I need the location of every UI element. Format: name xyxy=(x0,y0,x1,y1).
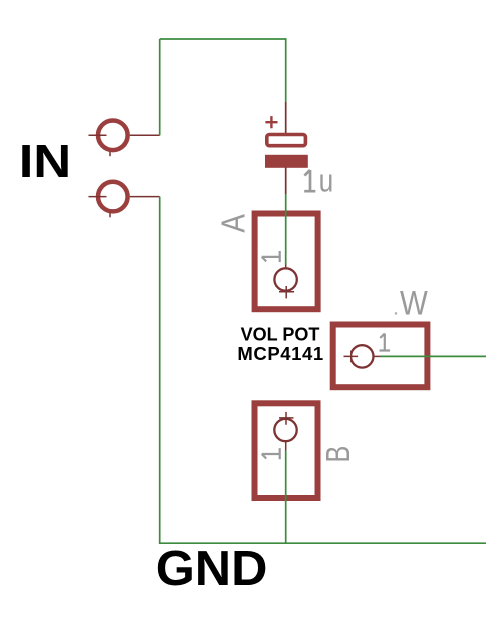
label GND xyxy=(156,540,268,595)
label IN xyxy=(19,135,72,188)
pad W circle xyxy=(351,345,373,367)
svg-text:MCP4141: MCP4141 xyxy=(237,343,323,364)
part label MCP4141 xyxy=(237,343,323,364)
wire net capacitor top vertical xyxy=(285,38,287,102)
value label 1u xyxy=(304,162,333,198)
pad W pin stub xyxy=(374,355,381,357)
capacitor C1 plus sign xyxy=(265,116,277,128)
svg-text:A: A xyxy=(214,214,251,233)
wire net pad W to right edge xyxy=(380,355,486,357)
svg-text:GND: GND xyxy=(156,540,268,595)
pad B pin stub xyxy=(285,442,287,451)
pin name label W xyxy=(400,285,428,323)
pad W rectangle xyxy=(333,325,428,388)
connector pad J2 bottom crosshair xyxy=(89,196,107,198)
svg-text:u: u xyxy=(319,162,334,198)
connector pad J2 bottom tick xyxy=(109,213,111,218)
capacitor C1 bottom plate xyxy=(265,155,308,168)
svg-text:B: B xyxy=(319,446,356,463)
pin wire J1 top to net xyxy=(130,134,160,136)
pin wire J2 bottom to net xyxy=(130,196,160,198)
capacitor C1 pin wire bottom xyxy=(285,168,287,195)
wire net top horizontal xyxy=(160,38,286,40)
pad A pin stub xyxy=(285,264,287,269)
capacitor C1 top plate xyxy=(267,135,306,146)
pad B pin number 1 (rotated) xyxy=(262,448,280,459)
pad A rectangle xyxy=(255,214,318,310)
capacitor C1 pin wire top xyxy=(285,102,287,133)
pad B rectangle xyxy=(255,403,318,498)
wire net pad B down to GND rail xyxy=(285,451,287,544)
pin name label B (rotated) xyxy=(319,446,356,463)
wire net left vertical lower (IN bottom pad to GND rail) xyxy=(159,197,161,544)
pad W connection cross xyxy=(344,351,359,363)
pad W pin number 1 xyxy=(380,334,391,351)
connector pad J1 top bottom tick xyxy=(109,152,111,156)
pad B connection cross xyxy=(279,412,294,425)
pad A pin number 1 (rotated) xyxy=(262,251,280,262)
svg-text:W: W xyxy=(400,285,428,323)
wire net capacitor bottom to pad A xyxy=(285,194,287,265)
connector pad J1 top (IN) ring xyxy=(98,121,128,151)
connector pad J1 top crosshair xyxy=(89,134,107,136)
pad A circle xyxy=(274,268,296,290)
connector pad J2 bottom (IN) ring xyxy=(98,182,128,212)
pad A connection cross xyxy=(279,286,294,298)
part label VOL POT xyxy=(241,325,320,345)
pin name label A (rotated) xyxy=(214,214,251,233)
wire net GND rail horizontal xyxy=(159,542,486,544)
pad B circle xyxy=(274,419,296,441)
wire net left vertical upper (to IN top pad) xyxy=(159,39,161,135)
stray dot left of W label xyxy=(395,312,397,314)
svg-text:IN: IN xyxy=(19,135,72,188)
svg-text:VOL POT: VOL POT xyxy=(241,325,320,345)
